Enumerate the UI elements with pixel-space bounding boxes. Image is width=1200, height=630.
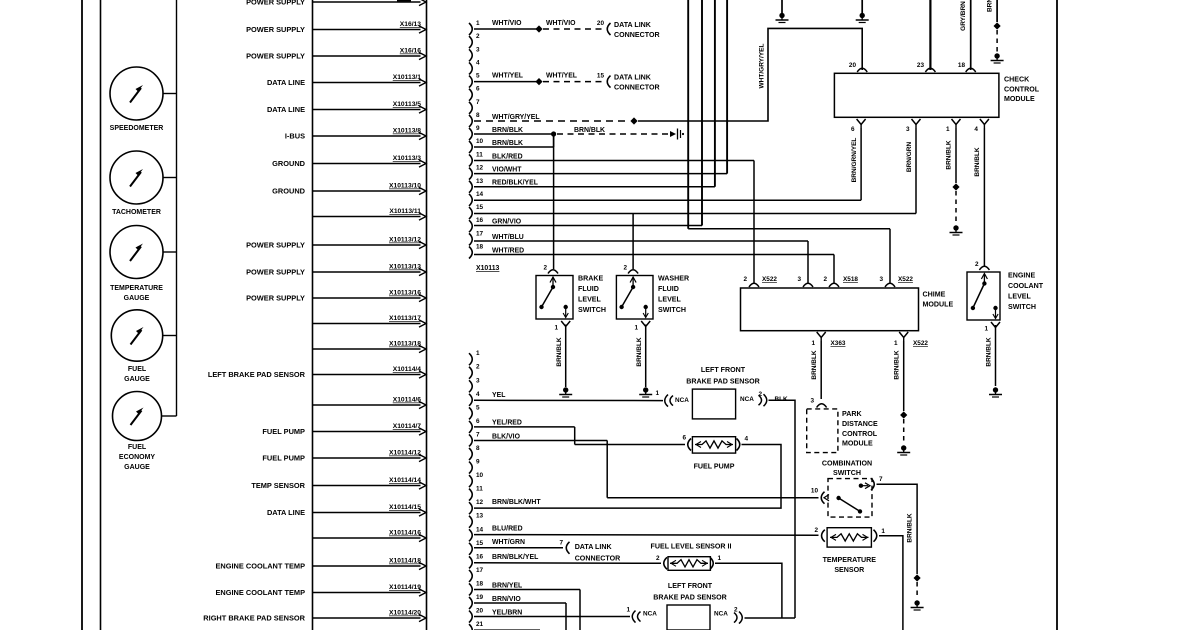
svg-text:3: 3 — [797, 276, 801, 283]
wire BRN/BLK chime pin 1 X522 to ground — [894, 341, 911, 455]
wire BRN/BLK brake fluid switch pin 1 to ground — [556, 325, 572, 398]
cluster pin row X10114/4 LEFT BRAKE PAD SENSOR — [208, 366, 426, 379]
wire X10113 pin 14 to check control module pin 6 — [474, 128, 861, 200]
cluster pin row X10114/19 ENGINE COOLANT TEMP — [215, 584, 426, 597]
svg-text:LEFT FRONT: LEFT FRONT — [668, 582, 713, 590]
CCM bottom pin 4 — [974, 119, 989, 133]
svg-text:BRN/YEL: BRN/YEL — [492, 582, 522, 589]
svg-text:FUEL PUMP: FUEL PUMP — [262, 427, 305, 436]
svg-text:3: 3 — [476, 46, 480, 53]
svg-text:FUEL PUMP: FUEL PUMP — [694, 463, 735, 471]
svg-text:ECONOMY: ECONOMY — [119, 454, 156, 461]
wire BLK brake pad sensor to lower circuit — [769, 400, 796, 618]
svg-text:X10113: X10113 — [476, 265, 500, 272]
wire VIO/WHT X10113 pin 12 up offpage — [474, 0, 727, 174]
svg-text:YEL: YEL — [492, 392, 505, 399]
wire GRY/BRN into CCM pin 18 from top — [960, 0, 971, 70]
svg-text:GROUND: GROUND — [272, 159, 306, 168]
gauge connection bus vertical line — [176, 0, 178, 416]
svg-text:LEFT FRONT: LEFT FRONT — [701, 366, 746, 374]
svg-text:2: 2 — [623, 265, 627, 272]
chime bottom pin 1 X363 — [811, 332, 845, 347]
wire BRN/BLK CCM pin 4 to engine coolant level switch pin 2 — [974, 128, 984, 267]
svg-text:X522: X522 — [913, 340, 928, 347]
svg-text:3: 3 — [879, 276, 883, 283]
svg-text:1: 1 — [655, 390, 659, 397]
chime top pin 3 — [797, 276, 813, 287]
wire BRN/BLK CCM pin 1 to ground — [946, 128, 963, 235]
cut-off connector label fragment above row 1 — [397, 0, 411, 2]
svg-text:6: 6 — [682, 434, 686, 441]
svg-text:18: 18 — [476, 580, 484, 587]
svg-text:DATA LINK: DATA LINK — [614, 21, 652, 29]
svg-text:ENGINE COOLANT TEMP: ENGINE COOLANT TEMP — [215, 561, 305, 570]
page frame line (left outer vertical border) — [81, 0, 83, 630]
svg-text:BRN/BLK: BRN/BLK — [556, 337, 563, 367]
instrument cluster connector block right line — [426, 0, 428, 630]
svg-text:TEMPERATURE: TEMPERATURE — [110, 285, 163, 292]
svg-text:BRN/VIO: BRN/VIO — [492, 596, 521, 603]
wire BRN/BLK chime pin 1 X363 to park distance control module — [811, 341, 821, 399]
wire WHT/YEL X10113 pin 5 to data link connector pin 15 — [474, 72, 660, 91]
svg-text:10: 10 — [476, 138, 484, 145]
svg-text:LEFT BRAKE PAD SENSOR: LEFT BRAKE PAD SENSOR — [208, 370, 306, 379]
svg-text:5: 5 — [476, 404, 480, 411]
svg-text:X16/16: X16/16 — [400, 48, 421, 55]
svg-text:17: 17 — [476, 567, 484, 574]
wire BLK/RED X10113 pin 11 to chime module pin 2 X522 — [474, 153, 754, 284]
svg-text:BRN/BLK/YEL: BRN/BLK/YEL — [492, 554, 538, 561]
wire BRN/YEL X10114 pin 18 down offpage — [474, 582, 580, 630]
cluster pin row X10113/1 DATA LINE — [267, 74, 426, 87]
svg-text:1: 1 — [984, 326, 988, 333]
svg-text:YEL/BRN: YEL/BRN — [492, 609, 522, 616]
chime top pin 2 X522 — [743, 276, 777, 287]
wire WHT/GRN X10114 pin 15 to data link connector pin 7 — [474, 539, 620, 563]
wire BRN/BLK X10113 pin 10 up to pin 9 node — [474, 134, 554, 147]
svg-text:X10113/11: X10113/11 — [389, 208, 421, 215]
svg-text:WHT/GRY/YEL: WHT/GRY/YEL — [492, 114, 540, 121]
svg-text:BRN/GRN/YEL: BRN/GRN/YEL — [851, 138, 858, 183]
cluster pin row X10113/16 POWER SUPPLY — [246, 290, 426, 303]
svg-text:SWITCH: SWITCH — [833, 469, 861, 477]
svg-text:YEL/RED: YEL/RED — [492, 420, 522, 427]
svg-text:FLUID: FLUID — [658, 285, 679, 293]
svg-text:RED/BLK/YEL: RED/BLK/YEL — [492, 180, 538, 187]
svg-text:4: 4 — [476, 391, 480, 398]
svg-text:X10113/10: X10113/10 — [389, 183, 421, 190]
CCM bottom pin 3 — [906, 119, 921, 133]
left front brake pad sensor B1 (box) — [686, 366, 788, 419]
svg-text:WHT/VIO: WHT/VIO — [546, 20, 576, 27]
svg-text:SENSOR: SENSOR — [834, 566, 864, 574]
svg-text:14: 14 — [476, 526, 484, 533]
svg-text:6: 6 — [851, 126, 855, 133]
wire BRN/BLK combination switch pin 7 to ground — [877, 484, 924, 610]
wire BRN/BLK X10113 pin 9 junction node — [474, 127, 556, 137]
svg-text:X10113/1: X10113/1 — [393, 74, 422, 81]
svg-text:BRN/BLK: BRN/BLK — [974, 147, 981, 177]
cluster pin row X10113/10 GROUND — [272, 183, 426, 196]
svg-text:3: 3 — [476, 377, 480, 384]
svg-text:17: 17 — [476, 230, 484, 237]
svg-text:MODULE: MODULE — [842, 440, 873, 448]
svg-text:16: 16 — [476, 553, 484, 560]
svg-text:CONTROL: CONTROL — [842, 430, 878, 438]
combination switch pin 7 — [871, 476, 883, 490]
wire YEL X10114 pin 4 to left front brake pad sensor — [474, 390, 689, 407]
svg-text:X10113/8: X10113/8 — [393, 128, 422, 135]
svg-text:6: 6 — [476, 418, 480, 425]
cluster pin row X10114/7 FUEL PUMP — [262, 423, 426, 436]
svg-text:BRN/BLK: BRN/BLK — [946, 140, 953, 170]
cluster pin row X10114/15 DATA LINE — [267, 504, 426, 517]
wire X10114 pin 21 stub — [474, 629, 540, 630]
combination switch pin 10 — [811, 488, 829, 504]
svg-text:DATA LINE: DATA LINE — [267, 78, 305, 87]
svg-text:GRN/VIO: GRN/VIO — [492, 218, 522, 225]
svg-text:SWITCH: SWITCH — [578, 306, 606, 314]
combination switch internal contact — [836, 483, 870, 514]
svg-text:BRN/BLK: BRN/BLK — [492, 140, 523, 147]
svg-text:X10113/5: X10113/5 — [393, 101, 422, 108]
svg-text:TACHOMETER: TACHOMETER — [112, 209, 161, 216]
svg-text:FUEL PUMP: FUEL PUMP — [262, 453, 305, 462]
svg-text:POWER SUPPLY: POWER SUPPLY — [246, 0, 305, 6]
ground symbol with stub above CCM pin 20 — [856, 0, 869, 23]
park distance control module U-PDC (dashed) — [807, 398, 878, 453]
svg-text:4: 4 — [974, 126, 978, 133]
svg-text:18: 18 — [476, 244, 484, 251]
cluster pin row X10113/18 — [313, 341, 427, 353]
svg-text:FUEL: FUEL — [128, 444, 147, 451]
svg-text:POWER SUPPLY: POWER SUPPLY — [246, 240, 305, 249]
svg-text:VIO/WHT: VIO/WHT — [492, 166, 522, 173]
svg-text:DATA LINE: DATA LINE — [267, 508, 305, 517]
svg-text:21: 21 — [476, 621, 484, 628]
svg-text:BLK/VIO: BLK/VIO — [492, 433, 521, 440]
svg-text:WHT/GRN: WHT/GRN — [492, 539, 525, 546]
svg-text:4: 4 — [476, 59, 480, 66]
svg-text:X10114/18: X10114/18 — [389, 558, 421, 565]
svg-text:18: 18 — [958, 62, 966, 69]
temperature gauge — [110, 226, 177, 303]
svg-text:NCA: NCA — [714, 611, 728, 618]
combination switch S4 (dashed box) — [822, 460, 872, 518]
wire X10113 pin 15 to check control module pin 3 and washer fluid level switch — [474, 128, 916, 269]
svg-text:BRN/BLK/WHT: BRN/BLK/WHT — [492, 499, 541, 506]
svg-text:7: 7 — [879, 476, 883, 483]
wire WHT/VIO X10113 pin 1 to data link connector pin 20 — [474, 20, 660, 39]
svg-text:COOLANT: COOLANT — [1008, 282, 1044, 290]
svg-text:POWER SUPPLY: POWER SUPPLY — [246, 293, 305, 302]
cluster pin row X10114/20 RIGHT BRAKE PAD SENSOR — [203, 610, 426, 623]
svg-text:20: 20 — [476, 608, 484, 615]
svg-text:5: 5 — [476, 73, 480, 80]
cluster pin row X10113/3 GROUND — [272, 155, 426, 168]
temperature sensor RT1 — [814, 527, 885, 574]
wire YEL/RED X10114 pin 6 to fuel pump pin 6 — [474, 420, 685, 445]
svg-text:BRAKE PAD SENSOR: BRAKE PAD SENSOR — [686, 378, 760, 386]
cluster pin row X10113/5 DATA LINE — [267, 101, 426, 114]
svg-text:13: 13 — [476, 178, 484, 185]
svg-text:X518: X518 — [843, 276, 858, 283]
svg-text:X10114/6: X10114/6 — [393, 397, 422, 404]
svg-text:20: 20 — [597, 20, 605, 27]
svg-text:TEMP SENSOR: TEMP SENSOR — [251, 481, 305, 490]
svg-text:LEVEL: LEVEL — [578, 296, 602, 304]
instrument cluster connector block left line — [312, 0, 314, 630]
svg-text:X10114/16: X10114/16 — [389, 530, 421, 537]
svg-text:POWER SUPPLY: POWER SUPPLY — [246, 51, 305, 60]
svg-text:SWITCH: SWITCH — [1008, 303, 1036, 311]
fuel economy gauge — [113, 392, 177, 472]
svg-text:15: 15 — [476, 540, 484, 547]
tachometer gauge — [110, 151, 177, 216]
svg-text:7: 7 — [559, 540, 563, 547]
wire BRN/BLK engine coolant level switch pin 1 to ground — [986, 325, 1003, 397]
svg-text:X16/13: X16/13 — [400, 21, 421, 28]
svg-text:CHECK: CHECK — [1004, 76, 1030, 84]
svg-text:X363: X363 — [831, 340, 846, 347]
svg-text:X10113/13: X10113/13 — [389, 264, 421, 271]
svg-text:GAUGE: GAUGE — [124, 464, 150, 471]
chime top pin 3 X522 — [879, 276, 913, 287]
svg-text:9: 9 — [476, 125, 480, 132]
svg-text:7: 7 — [476, 99, 480, 106]
svg-text:7: 7 — [476, 431, 480, 438]
svg-text:2: 2 — [656, 555, 660, 562]
svg-text:1: 1 — [554, 325, 558, 332]
svg-text:WHT/YEL: WHT/YEL — [492, 72, 523, 79]
svg-text:X10114/7: X10114/7 — [393, 423, 422, 430]
svg-text:15: 15 — [476, 204, 484, 211]
left front brake pad sensor B3 (box) — [653, 582, 742, 630]
cluster pin row X10113/17 — [313, 315, 427, 327]
svg-text:1: 1 — [946, 126, 950, 133]
svg-text:BRN/BLK: BRN/BLK — [574, 127, 605, 134]
wire WHT/RED X10113 pin 18 to chime module pin 2 X518 — [474, 247, 834, 284]
svg-text:23: 23 — [917, 62, 925, 69]
wire BRN/BLK dashed to inline connector — [557, 127, 684, 140]
svg-text:10: 10 — [476, 472, 484, 479]
svg-text:X522: X522 — [898, 276, 913, 283]
svg-text:DISTANCE: DISTANCE — [842, 420, 878, 428]
brake fluid level switch S1 — [536, 265, 606, 332]
chime top pin 2 X518 — [823, 276, 858, 287]
CCM top pin 23 — [917, 62, 936, 72]
svg-text:9: 9 — [476, 459, 480, 466]
wire from offpage top down to chime module pin 3 X522 — [688, 0, 890, 284]
svg-text:FUEL: FUEL — [128, 366, 147, 373]
svg-text:X10114/4: X10114/4 — [393, 366, 422, 373]
cluster pin row row 1 POWER SUPPLY — [246, 0, 426, 6]
svg-text:1: 1 — [894, 340, 898, 347]
wire RED/BLK/YEL X10113 pin 13 up offpage — [474, 0, 715, 187]
speedometer gauge — [110, 67, 177, 132]
svg-text:CONNECTOR: CONNECTOR — [614, 84, 660, 92]
svg-text:14: 14 — [476, 191, 484, 198]
svg-text:15: 15 — [597, 73, 605, 80]
svg-text:GAUGE: GAUGE — [124, 376, 150, 383]
svg-text:DATA LINK: DATA LINK — [614, 74, 652, 82]
wire fuel level sensor II pin 1 to brake pad sensor circuit — [715, 563, 782, 618]
svg-text:8: 8 — [476, 445, 480, 452]
wire brake pad sensor II pin 2 junction — [745, 617, 796, 619]
cluster pin row X16/16 POWER SUPPLY — [246, 48, 426, 61]
svg-text:SPEEDOMETER: SPEEDOMETER — [110, 125, 164, 132]
svg-text:FUEL LEVEL SENSOR II: FUEL LEVEL SENSOR II — [651, 543, 732, 551]
svg-text:BLU/RED: BLU/RED — [492, 525, 523, 532]
svg-text:1: 1 — [718, 555, 722, 562]
washer fluid level switch S2 — [616, 265, 689, 332]
wire BRN/BLK node down to brake fluid level switch pin 2 — [553, 134, 555, 269]
svg-text:4: 4 — [745, 435, 749, 442]
svg-text:1: 1 — [811, 340, 815, 347]
svg-text:1: 1 — [476, 350, 480, 357]
svg-text:WHT/YEL: WHT/YEL — [546, 72, 577, 79]
svg-text:BRN/BLK: BRN/BLK — [636, 337, 643, 367]
svg-text:WHT/RED: WHT/RED — [492, 247, 524, 254]
svg-text:NCA: NCA — [740, 396, 754, 403]
svg-text:CHIME: CHIME — [923, 291, 946, 299]
svg-text:X10114/12: X10114/12 — [389, 450, 421, 457]
svg-text:RIGHT BRAKE PAD SENSOR: RIGHT BRAKE PAD SENSOR — [203, 613, 305, 622]
svg-text:X522: X522 — [762, 276, 777, 283]
wire BRN with inline connector to ground at top right — [987, 0, 1004, 63]
svg-text:CONTROL: CONTROL — [1004, 86, 1040, 94]
svg-text:19: 19 — [476, 594, 484, 601]
svg-text:3: 3 — [906, 126, 910, 133]
svg-text:2: 2 — [476, 33, 480, 40]
CCM bottom pin 1 — [946, 119, 961, 133]
svg-text:BRN: BRN — [987, 0, 994, 12]
svg-text:X10113/3: X10113/3 — [393, 155, 422, 162]
svg-text:BRN/BLK: BRN/BLK — [492, 127, 523, 134]
chime bottom pin 1 X522 — [894, 332, 928, 347]
svg-text:WHT/GRY/YEL: WHT/GRY/YEL — [759, 44, 766, 89]
wire BRN/BLK washer fluid switch pin 1 to ground — [636, 325, 652, 398]
ground symbol with stub left of CCM — [776, 0, 789, 23]
svg-text:POWER SUPPLY: POWER SUPPLY — [246, 25, 305, 34]
svg-text:2: 2 — [758, 391, 762, 398]
svg-text:X10113/18: X10113/18 — [389, 341, 421, 348]
svg-text:MODULE: MODULE — [1004, 95, 1035, 103]
chime module U-CHIME — [741, 288, 954, 331]
connector X10114 pin bank (cluster pins 1-21) — [469, 350, 484, 630]
svg-text:12: 12 — [476, 499, 484, 506]
svg-text:X10113/12: X10113/12 — [389, 237, 421, 244]
cluster pin row X10114/18 ENGINE COOLANT TEMP — [215, 558, 426, 571]
svg-text:CONNECTOR: CONNECTOR — [614, 31, 660, 39]
svg-text:LEVEL: LEVEL — [1008, 293, 1032, 301]
svg-text:ENGINE COOLANT TEMP: ENGINE COOLANT TEMP — [215, 588, 305, 597]
svg-text:WHT/VIO: WHT/VIO — [492, 20, 522, 27]
svg-text:DATA LINK: DATA LINK — [575, 543, 613, 551]
svg-text:16: 16 — [476, 217, 484, 224]
svg-text:X10114/20: X10114/20 — [389, 610, 421, 617]
wire fuel pump pin 4 to cluster BRN/BLK/WHT — [474, 445, 781, 509]
svg-text:X10114/15: X10114/15 — [389, 504, 421, 511]
cluster pin row X10114/14 TEMP SENSOR — [251, 477, 426, 490]
svg-text:X10114/19: X10114/19 — [389, 584, 421, 591]
svg-text:X10114/14: X10114/14 — [389, 477, 421, 484]
svg-text:2: 2 — [734, 607, 738, 614]
svg-text:FLUID: FLUID — [578, 285, 599, 293]
svg-text:TEMPERATURE: TEMPERATURE — [823, 556, 877, 564]
wire WHT/BLU X10113 pin 17 to chime module pin 3 — [474, 234, 808, 284]
svg-text:2: 2 — [476, 364, 480, 371]
svg-text:1: 1 — [476, 20, 480, 27]
svg-text:12: 12 — [476, 165, 484, 172]
cluster pin row X10113/11 — [313, 208, 427, 220]
cluster pin row X10113/8 I-BUS — [285, 128, 426, 141]
svg-text:WASHER: WASHER — [658, 275, 689, 283]
wire WHT/GRY/YEL X10113 pin 8 to check control module pin 20 — [474, 28, 862, 124]
svg-text:2: 2 — [814, 527, 818, 534]
svg-text:2: 2 — [975, 261, 979, 268]
wire BLU/RED X10114 pin 14 to temperature sensor pin 2 — [474, 525, 819, 535]
svg-text:GROUND: GROUND — [272, 186, 306, 195]
svg-text:11: 11 — [476, 486, 483, 493]
svg-text:BRN/BLK: BRN/BLK — [894, 350, 901, 380]
connector X10113 pin bank (cluster pins 1-18) — [469, 20, 484, 259]
fuel level sensor II B2 — [651, 543, 732, 571]
engine coolant level switch S3 — [967, 261, 1044, 333]
svg-text:DATA LINE: DATA LINE — [267, 105, 305, 114]
wire BLK/VIO X10114 pin 7 to combination switch pin 10 — [474, 433, 819, 497]
wire temperature sensor pin 1 down offpage — [879, 536, 903, 630]
svg-text:ENGINE: ENGINE — [1008, 272, 1035, 280]
svg-text:11: 11 — [476, 151, 483, 158]
svg-text:COMBINATION: COMBINATION — [822, 460, 872, 468]
svg-text:POWER SUPPLY: POWER SUPPLY — [246, 267, 305, 276]
svg-text:BRN/BLK: BRN/BLK — [811, 350, 818, 380]
svg-text:BRN/BLK: BRN/BLK — [907, 513, 914, 543]
svg-text:3: 3 — [810, 398, 814, 405]
wire into CCM pin 23 from top — [929, 0, 931, 70]
cluster pin row X16/13 POWER SUPPLY — [246, 21, 426, 34]
fuel pump M1 — [682, 434, 748, 470]
cluster pin row X10114/6 — [313, 397, 427, 409]
svg-text:MODULE: MODULE — [923, 301, 954, 309]
fuel gauge — [111, 310, 176, 383]
svg-text:I-BUS: I-BUS — [285, 131, 305, 140]
cluster pin row X10113/12 POWER SUPPLY — [246, 237, 426, 250]
svg-text:GAUGE: GAUGE — [124, 295, 150, 302]
svg-text:8: 8 — [476, 112, 480, 119]
svg-text:NCA: NCA — [643, 611, 657, 618]
svg-text:1: 1 — [881, 528, 885, 535]
CCM bottom pin 6 — [851, 119, 866, 133]
svg-text:BLK/RED: BLK/RED — [492, 153, 523, 160]
svg-text:2: 2 — [543, 265, 547, 272]
svg-text:WHT/BLU: WHT/BLU — [492, 234, 524, 241]
svg-text:SWITCH: SWITCH — [658, 306, 686, 314]
cluster pin row X10114/12 FUEL PUMP — [262, 450, 426, 463]
svg-text:BRAKE PAD SENSOR: BRAKE PAD SENSOR — [653, 594, 727, 602]
svg-text:BRAKE: BRAKE — [578, 275, 603, 283]
cluster pin row X10114/16 — [313, 530, 427, 542]
svg-text:GRY/BRN: GRY/BRN — [960, 1, 967, 31]
svg-text:BRN/GRN: BRN/GRN — [906, 142, 913, 173]
svg-text:X10113/16: X10113/16 — [389, 290, 421, 297]
svg-text:NCA: NCA — [675, 397, 689, 404]
wire GRN/VIO X10113 pin 16 up offpage — [474, 0, 702, 226]
svg-text:LEVEL: LEVEL — [658, 296, 682, 304]
cluster pin row X10113/13 POWER SUPPLY — [246, 264, 426, 277]
svg-text:20: 20 — [849, 62, 857, 69]
